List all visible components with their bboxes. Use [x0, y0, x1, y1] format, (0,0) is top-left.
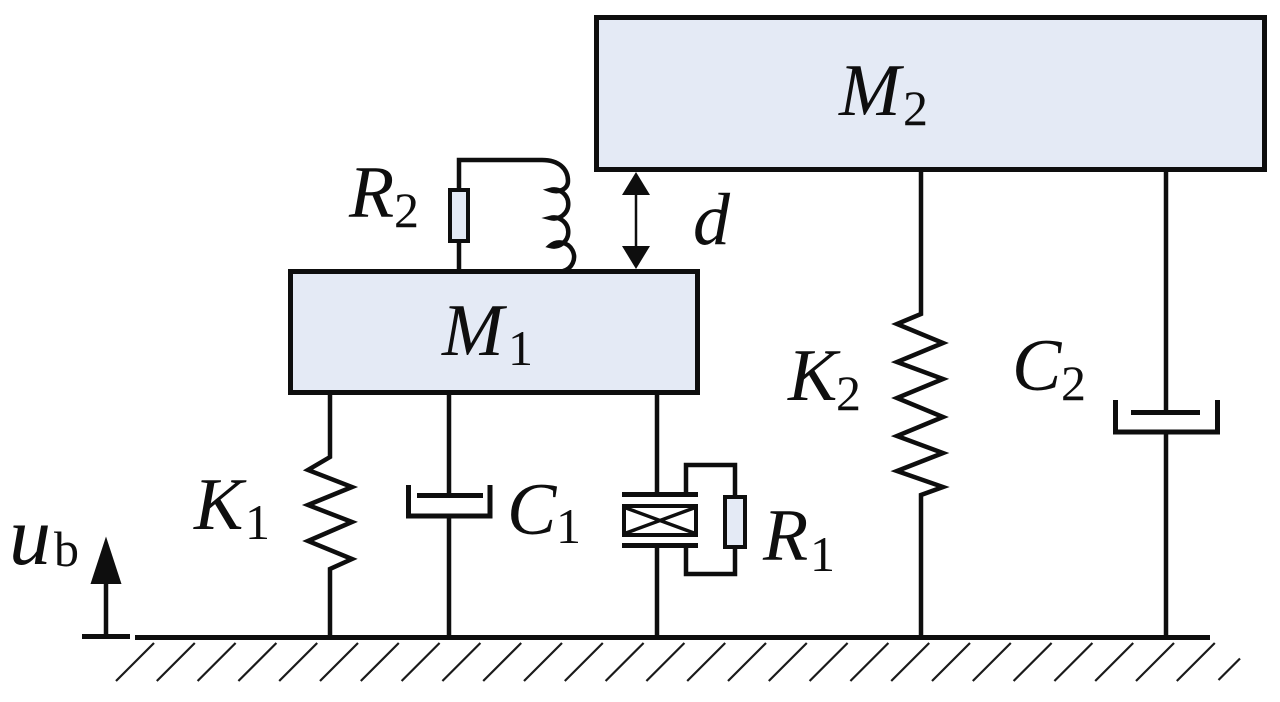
svg-text:u: u — [9, 490, 51, 583]
svg-text:2: 2 — [1061, 355, 1086, 411]
svg-text:1: 1 — [508, 320, 533, 376]
svg-text:R: R — [348, 152, 394, 234]
svg-text:b: b — [54, 521, 79, 577]
svg-text:d: d — [693, 179, 731, 261]
svg-text:1: 1 — [810, 526, 835, 582]
svg-text:K: K — [193, 464, 247, 546]
svg-text:R: R — [762, 495, 808, 577]
svg-text:2: 2 — [394, 182, 419, 238]
svg-text:C: C — [507, 469, 558, 551]
svg-text:K: K — [787, 335, 841, 417]
svg-text:M: M — [838, 50, 905, 132]
svg-text:C: C — [1012, 325, 1063, 407]
svg-text:1: 1 — [556, 498, 581, 554]
svg-text:2: 2 — [836, 365, 861, 421]
svg-text:M: M — [441, 290, 508, 372]
svg-text:2: 2 — [903, 80, 928, 136]
svg-text:1: 1 — [245, 494, 270, 550]
